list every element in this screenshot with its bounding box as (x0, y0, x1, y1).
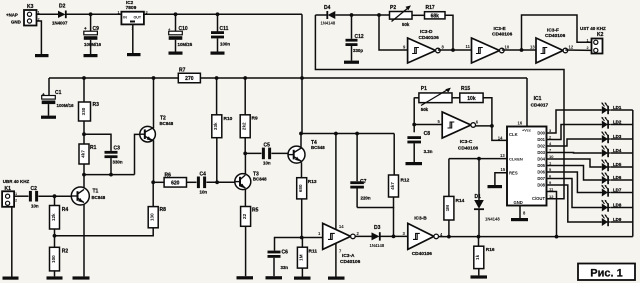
capacitor C8 3.3n (407, 125, 432, 163)
resistor R14 1M (444, 159, 465, 220)
svg-text:D07: D07 (537, 176, 545, 181)
svg-text:IC3-F: IC3-F (547, 28, 559, 34)
svg-text:GND: GND (514, 200, 523, 205)
svg-text:1N4148: 1N4148 (370, 243, 385, 248)
wire LD5 cathode to rail (611, 166, 633, 168)
svg-text:16: 16 (518, 121, 523, 126)
svg-text:D3: D3 (374, 225, 381, 231)
svg-text:1M: 1M (299, 254, 304, 261)
wire K3 pin2 down (37, 21, 42, 54)
svg-text:R12: R12 (401, 178, 410, 184)
svg-text:C10: C10 (179, 26, 188, 32)
svg-text:4k7: 4k7 (80, 150, 85, 158)
svg-text:14: 14 (339, 224, 344, 229)
diode D1 1N4148 (474, 159, 500, 237)
svg-text:K3: K3 (27, 4, 34, 10)
ground (C1) (41, 116, 56, 119)
svg-text:D00: D00 (537, 131, 545, 136)
wire D3 to IC3-B input (380, 231, 408, 236)
wire R13 to detector node (300, 199, 304, 240)
svg-text:12: 12 (549, 194, 554, 199)
svg-text:+Vcc: +Vcc (522, 128, 531, 132)
svg-text:3.3n: 3.3n (424, 149, 433, 154)
svg-text:CLK: CLK (509, 132, 518, 137)
svg-text:C3: C3 (114, 146, 121, 152)
svg-text:IC3-D: IC3-D (420, 29, 433, 35)
transistor T2 BC848 (140, 116, 174, 143)
wire +9V rail y78 left of R7 (49, 76, 178, 80)
transistor T3 BC848 (235, 172, 267, 190)
wire D4 to P2 (335, 13, 389, 17)
wire T4 collector to +9V line (300, 134, 302, 148)
svg-text:50k: 50k (421, 107, 429, 112)
svg-text:R14: R14 (456, 198, 465, 204)
svg-text:15: 15 (501, 167, 506, 172)
wire CLKEN pin13 line (449, 153, 507, 161)
svg-text:4k7: 4k7 (390, 182, 395, 190)
capacitor C2 10n (29, 186, 39, 208)
svg-text:CD4017: CD4017 (531, 103, 549, 109)
wire IC1 output D05 pin 1 to LD6 (547, 161, 602, 181)
potentiometer P2 50k (390, 5, 413, 27)
svg-text:10M/25: 10M/25 (178, 42, 193, 47)
wire R12 to D3 output node (392, 197, 396, 238)
figure label box (Рис. 1) (578, 264, 635, 281)
wire R14 bottom to output line (448, 220, 450, 237)
resistor R1 4k7 (79, 144, 97, 164)
resistor R17 68k (425, 5, 446, 19)
LED LD2 (600, 117, 622, 129)
svg-text:270: 270 (185, 76, 194, 82)
ground (RES) (488, 185, 503, 188)
wire R15 right drop to output (483, 98, 492, 126)
ground (IC3-A) (328, 277, 345, 280)
wire RES pin15 to ground (495, 167, 507, 185)
IC U1 CD4017 counter (IC1) (507, 96, 549, 206)
svg-text:P1: P1 (421, 86, 427, 92)
wire +9V vertical x302 down to rail and to x=133.5 line (300, 14, 304, 133)
resistor R12 4k7 (389, 175, 410, 197)
transistor T1 BC848 (71, 187, 105, 205)
wire LD2 cathode to rail (611, 124, 633, 126)
svg-text:50k: 50k (402, 22, 410, 27)
svg-text:10: 10 (549, 154, 554, 159)
svg-text:D2: D2 (59, 4, 66, 10)
wire K3 pin1 to D2 (37, 13, 59, 15)
wire R11 to ground (301, 268, 303, 276)
ground (K3) (35, 54, 49, 57)
wire LD7 cathode to rail (611, 192, 633, 194)
resistor R8 130 (148, 182, 166, 228)
svg-text:UBR 40 KHZ: UBR 40 KHZ (3, 179, 30, 184)
wire detector node to IC3-A input (302, 231, 323, 238)
wire C2 to T1 base (38, 194, 71, 198)
svg-text:100n: 100n (220, 42, 230, 47)
wire +9V rail y78 right of R7 (200, 76, 302, 80)
resistor R15 10k (460, 86, 483, 103)
svg-text:T1: T1 (93, 189, 99, 195)
wire R2 to ground (54, 271, 56, 277)
svg-text:BC548: BC548 (311, 145, 325, 150)
svg-text:C/OUT: C/OUT (532, 196, 545, 201)
wire T3 emitter to R5 (244, 189, 246, 206)
wire C8 node to IC3-C input (414, 119, 442, 124)
op-amp gate IC3-B CD40106 schmitt inverter (408, 215, 443, 256)
svg-text:P2: P2 (390, 5, 396, 11)
svg-text:UST 40 KHZ: UST 40 KHZ (580, 26, 606, 31)
wire P1 chain left drop (412, 98, 416, 127)
svg-text:CD40106: CD40106 (412, 251, 433, 257)
svg-text:10n: 10n (263, 161, 271, 166)
wire R6 to C4 (187, 181, 197, 183)
svg-text:2k2: 2k2 (242, 122, 247, 130)
LED LD4 (600, 145, 622, 157)
ground (C11) (211, 52, 225, 55)
svg-text:1N4007: 1N4007 (52, 21, 68, 26)
wire D2 to regulator input, junction at C9 (66, 12, 122, 16)
svg-text:10k: 10k (467, 96, 476, 102)
connector K1 UBR 40 KHZ (2, 179, 29, 207)
svg-text:R9: R9 (252, 115, 258, 121)
wire C7 bottom to R12 bottom (357, 207, 394, 209)
svg-text:R5: R5 (252, 207, 259, 213)
svg-text:R4: R4 (62, 207, 69, 213)
svg-text:1N4148: 1N4148 (485, 217, 500, 222)
svg-text:R8: R8 (160, 207, 167, 213)
svg-text:R6: R6 (165, 172, 172, 178)
wire T1 collector node y174.6 (82, 164, 134, 188)
svg-text:OUT: OUT (134, 16, 142, 20)
op-amp gate IC3-A CD40106 schmitt inverter (323, 223, 361, 265)
svg-text:130: 130 (150, 213, 155, 221)
resistor R7 270 (series in rail) (178, 68, 200, 83)
capacitor C3 330n (105, 146, 123, 175)
wire T2 emitter down to node (151, 140, 155, 184)
wire R3 to R1 junction / T2 base node (82, 121, 86, 144)
svg-text:D03: D03 (537, 150, 545, 155)
ground (C12) (344, 61, 359, 64)
wire LD3 cathode to rail (611, 138, 633, 140)
resistor R9 2k2 (240, 78, 258, 138)
wire R16 to ground (478, 269, 480, 276)
svg-text:CD40106: CD40106 (458, 146, 479, 152)
wire C5 to T4 base (271, 152, 288, 154)
ground (R11) (294, 277, 311, 280)
LED LD8 (600, 200, 622, 212)
svg-text:+: + (84, 26, 87, 31)
LED LD6 (600, 172, 622, 184)
svg-text:2: 2 (15, 199, 17, 203)
svg-text:33n: 33n (281, 265, 289, 270)
wire IC1 pin16 Vcc from rail (518, 78, 528, 127)
capacitor C7 220n (350, 134, 371, 208)
LED LD3 (600, 131, 622, 143)
LED LD5 (600, 159, 622, 171)
svg-text:IC1: IC1 (534, 96, 542, 102)
wire IC1 output D06 pin 5 to LD7 (547, 167, 602, 193)
svg-text:D08: D08 (537, 183, 545, 188)
svg-text:100: 100 (51, 255, 56, 263)
diode D4 1N4148 (321, 5, 336, 26)
capacitor C9 100M/16 (84, 14, 102, 54)
capacitor C10 10M/25 (168, 14, 193, 51)
wire IC3-C output to CLK (476, 124, 508, 141)
svg-text:D01: D01 (537, 137, 545, 142)
svg-text:C2: C2 (31, 186, 38, 192)
svg-text:R3: R3 (93, 102, 100, 108)
resistor R4 12k (50, 196, 69, 229)
wire IC1 C/OUT pin 12 gate line up to oscillator (315, 15, 564, 199)
ground (C9) (84, 54, 98, 57)
op-amp gate IC3-C CD40106 schmitt inverter (442, 112, 479, 152)
wire LD4 cathode to rail (611, 152, 633, 154)
svg-text:C1: C1 (55, 90, 62, 96)
wire corner to R12 (393, 134, 395, 176)
svg-text:BC848: BC848 (160, 121, 174, 126)
wire R5 to ground (245, 226, 247, 276)
ground (IC1) (511, 218, 528, 221)
wire T3 collector node to C5 (245, 152, 261, 154)
svg-text:330n: 330n (113, 160, 123, 165)
wire IC3-A pin7 to ground (335, 243, 337, 276)
wire K1 pin2 to ground (11, 207, 13, 277)
svg-text:R7: R7 (179, 68, 186, 74)
connector K2 UST 40 KHZ (580, 26, 606, 54)
wire IC1 output D00 pin 3 to LD1 (547, 110, 602, 133)
svg-text:D05: D05 (537, 163, 545, 168)
svg-text:C12: C12 (355, 34, 364, 40)
wire node up to T2 base (135, 134, 140, 174)
svg-text:IC3-C: IC3-C (460, 139, 473, 145)
resistor R6 620 (164, 172, 186, 187)
svg-text:CD40106: CD40106 (340, 259, 361, 265)
LED LD9 (600, 214, 622, 226)
wire LD9 cathode to rail (611, 221, 633, 223)
svg-text:22: 22 (242, 213, 247, 219)
svg-text:1N4148: 1N4148 (321, 21, 336, 26)
wire R9 to T3 collector node (243, 138, 247, 156)
svg-text:RES: RES (509, 171, 518, 176)
svg-text:IN: IN (123, 16, 127, 20)
voltage regulator IC2 7809 (118, 0, 148, 31)
svg-text:R15: R15 (461, 86, 470, 92)
svg-text:100M/16: 100M/16 (84, 42, 102, 47)
svg-text:1k: 1k (475, 254, 480, 260)
svg-text:D04: D04 (537, 157, 545, 162)
svg-text:Рис. 1: Рис. 1 (590, 268, 622, 280)
svg-text:12k: 12k (51, 213, 56, 221)
svg-text:BC848: BC848 (92, 195, 106, 200)
wire IC3-A output to D3 (355, 235, 371, 237)
svg-text:C5: C5 (264, 143, 271, 149)
ground (R5) (237, 276, 254, 279)
ground (C8) (406, 162, 423, 165)
wire T3 collector (244, 153, 246, 174)
wire R17 to IC3-D output (feedback) (445, 15, 453, 50)
ground (T1) (73, 276, 90, 279)
svg-text:R17: R17 (426, 5, 435, 11)
svg-text:CD40106: CD40106 (545, 33, 566, 39)
svg-text:+NAP: +NAP (6, 13, 18, 18)
svg-text:BC848: BC848 (253, 177, 267, 182)
capacitor C12 330p (346, 15, 364, 61)
svg-text:C8: C8 (424, 131, 431, 137)
svg-text:1: 1 (118, 11, 120, 15)
svg-text:7809: 7809 (126, 5, 137, 11)
resistor R13 680 (297, 178, 317, 199)
op-amp gate IC3-D CD40106 schmitt inverter (408, 29, 445, 63)
svg-text:1: 1 (587, 39, 589, 43)
svg-text:330: 330 (81, 107, 86, 115)
wire IC3-F output to K2 pin2 (565, 49, 591, 51)
wire IC3 pin14 power drop (336, 134, 344, 230)
svg-text:100M/16: 100M/16 (57, 103, 75, 108)
wire LD1 cathode to rail (611, 109, 633, 111)
wire IC1 output D07 pin 6 to LD8 (547, 174, 602, 208)
LED LD1 (600, 102, 622, 114)
svg-text:IC3-E: IC3-E (494, 26, 507, 32)
op-amp gate IC3-E CD40106 schmitt inverter (472, 26, 513, 63)
svg-text:C9: C9 (93, 26, 100, 32)
svg-text:R1: R1 (90, 145, 97, 151)
wire rail to IC1 Vcc (302, 77, 527, 79)
svg-text:13: 13 (530, 45, 535, 50)
wire junction down to IC3-D input (379, 15, 408, 50)
diode D3 1N4148 (370, 225, 385, 248)
svg-text:680: 680 (298, 184, 303, 192)
ground (R2) (47, 276, 63, 279)
ground (R16) (471, 275, 488, 278)
svg-text:33k: 33k (213, 122, 218, 130)
svg-text:C4: C4 (200, 171, 207, 177)
svg-text:330p: 330p (353, 48, 363, 53)
wire K1 pin1 to C2 (14, 195, 28, 197)
svg-text:220n: 220n (361, 195, 371, 200)
svg-text:620: 620 (171, 180, 180, 186)
op-amp gate IC3-F CD40106 schmitt inverter (536, 28, 574, 64)
wire IC1 pin 11 to common line (547, 187, 557, 237)
svg-text:K1: K1 (5, 186, 12, 192)
wire IC1 output D02 pin 4 to LD3 (547, 139, 602, 146)
resistor R10 33k (212, 78, 233, 138)
wire IC1 pin8 to ground (520, 206, 526, 219)
svg-text:C6: C6 (282, 250, 289, 256)
svg-text:11: 11 (466, 44, 471, 49)
wire IC3-B output line y236.6 (439, 235, 633, 239)
wire P1 to R15 (452, 97, 460, 99)
resistor R5 22 (241, 207, 259, 227)
capacitor C4 10n (197, 171, 207, 194)
svg-text:14: 14 (498, 136, 503, 141)
svg-text:10: 10 (505, 45, 510, 50)
wire detector node left to C6 (275, 238, 302, 251)
wire IC3-E output to IC3-F input (502, 45, 536, 52)
resistor R11 1M (297, 238, 317, 269)
capacitor C5 10n (262, 143, 271, 166)
svg-text:2: 2 (587, 46, 589, 50)
wire P2 to R17 (412, 14, 425, 16)
svg-text:D1: D1 (475, 194, 482, 200)
resistor R2 100 (50, 247, 69, 271)
wire +9V line y133.5 (299, 132, 394, 136)
wire T2 collector (153, 78, 155, 128)
svg-text:D02: D02 (537, 144, 545, 149)
ground (C10) (169, 52, 183, 55)
wire R10 to T3 base node (216, 138, 218, 183)
svg-text:R10: R10 (224, 116, 233, 122)
svg-text:CD40106: CD40106 (492, 32, 513, 38)
svg-text:R2: R2 (62, 248, 69, 254)
svg-text:C11: C11 (220, 26, 229, 32)
svg-text:10n: 10n (200, 190, 208, 195)
svg-text:68k: 68k (431, 13, 440, 19)
capacitor C11 100n (211, 14, 230, 51)
svg-text:CLKEN: CLKEN (509, 156, 523, 161)
diode D2 1N4007 (52, 4, 68, 26)
potentiometer P1 50k (414, 86, 452, 112)
svg-text:R11: R11 (309, 248, 318, 254)
wire R4 to R2 junction (feedback node) (53, 229, 57, 247)
capacitor C1 100M/16 (42, 78, 74, 116)
svg-text:12: 12 (569, 45, 574, 50)
wire R8 bottom to feedback line (55, 228, 154, 236)
svg-text:K2: K2 (597, 32, 604, 38)
svg-text:IC2: IC2 (126, 0, 134, 5)
wire T2 emitter node to R6 (153, 181, 164, 183)
wire IC1 output D08 pin 9 to LD9 (547, 180, 602, 222)
wire T1 emitter to ground (83, 204, 85, 276)
wire IC3-D output to IC3-E input (438, 44, 472, 52)
wire T4 emitter to R13 (301, 162, 303, 177)
svg-text:10n: 10n (31, 203, 39, 208)
svg-text:13: 13 (500, 153, 505, 158)
capacitor C6 33n (268, 250, 289, 277)
LED LD7 (600, 185, 622, 197)
wire IC2 pin2 to ground (132, 24, 134, 53)
wire C4 to T3 base (206, 180, 235, 184)
svg-text:IC3-A: IC3-A (342, 253, 355, 259)
svg-text:R13: R13 (308, 179, 317, 185)
wire bias node to C3 top (84, 134, 111, 151)
svg-text:C7: C7 (360, 179, 367, 185)
connector K3 (+NAP / GND input) (6, 4, 40, 26)
ground (C6) (266, 276, 283, 279)
svg-text:IC3-B: IC3-B (414, 215, 427, 221)
wire LD8 cathode to rail (611, 207, 633, 209)
wire K2 pin1 branch (522, 15, 592, 50)
svg-text:GND: GND (11, 20, 21, 25)
wire top feedback line y15 segment (315, 14, 327, 16)
wire IC1 output D01 pin 2 to LD2 (547, 125, 602, 140)
svg-text:CD40106: CD40106 (419, 35, 440, 41)
svg-text:+: + (42, 92, 45, 97)
svg-text:1M: 1M (445, 205, 450, 212)
ground (K1) (3, 277, 19, 280)
svg-text:D4: D4 (324, 5, 331, 11)
wire IC1 output D04 pin 10 to LD5 (547, 154, 602, 167)
wire IC1 output D03 pin 7 to LD4 (547, 148, 602, 154)
svg-text:R16: R16 (486, 247, 495, 253)
resistor R16 1k (474, 237, 495, 269)
svg-text:D06: D06 (537, 170, 545, 175)
ground (IC2) (127, 53, 141, 56)
svg-text:1: 1 (15, 192, 17, 196)
transistor T4 BC548 (288, 140, 325, 163)
wire LED cathode rail (632, 110, 634, 237)
wire LD6 cathode to rail (611, 179, 633, 181)
wire +9V top rail from IC2 out to corner x302 (144, 12, 302, 16)
resistor R3 330 (79, 78, 100, 121)
